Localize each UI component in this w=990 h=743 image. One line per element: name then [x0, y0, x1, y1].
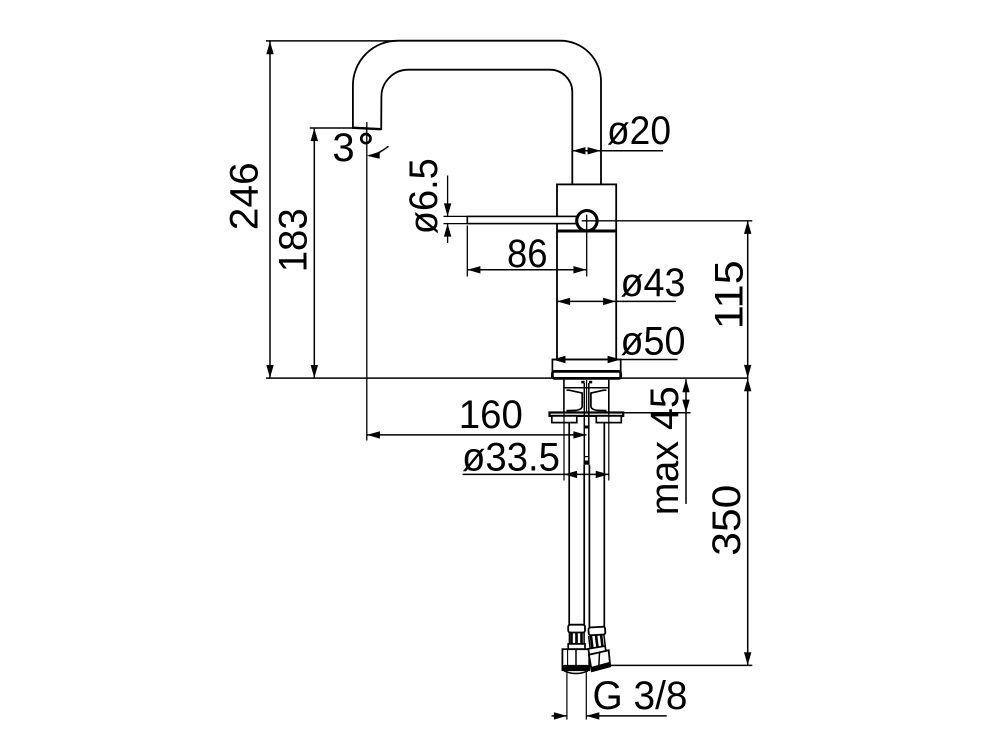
dimension ø50 — [552, 319, 685, 363]
fixing cone right horn — [591, 390, 607, 410]
body joint bold band — [558, 229, 616, 232]
stud centerline — [586, 380, 588, 413]
left hose lower band — [568, 644, 585, 649]
base plate — [552, 371, 620, 378]
svg-text:183: 183 — [271, 208, 315, 272]
right hose — [603, 423, 605, 629]
left hose ribs — [569, 633, 584, 645]
dimension 350 — [610, 378, 753, 665]
angle 3° label — [332, 126, 388, 170]
svg-text:ø20: ø20 — [607, 109, 671, 153]
dimension 183 — [271, 128, 352, 378]
svg-text:86: 86 — [507, 232, 548, 276]
left hose — [568, 423, 570, 626]
svg-text:3: 3 — [332, 126, 354, 170]
ø33.5 extension lines — [563, 413, 565, 481]
svg-text:350: 350 — [705, 485, 749, 556]
threaded mounting tube (ø33.5) — [563, 378, 565, 412]
dimension max 45 — [623, 379, 690, 515]
svg-text:ø33.5: ø33.5 — [462, 436, 560, 480]
clamp right leg — [596, 416, 621, 423]
svg-text:160: 160 — [459, 393, 523, 437]
dimension 246 — [223, 41, 398, 378]
svg-text:G 3/8: G 3/8 — [593, 674, 688, 718]
counter/reference line — [266, 377, 748, 379]
dimension G 3/8 — [552, 674, 688, 720]
dimension 115 — [707, 221, 751, 378]
outlet centerline down to 160 dim — [366, 122, 368, 441]
svg-text:246: 246 — [223, 162, 267, 230]
lever handle (ø6.5) — [467, 216, 579, 223]
lever ball joint — [577, 211, 597, 231]
outlet face (3° slant) — [352, 128, 381, 130]
stud top marks — [581, 381, 584, 384]
right hose fitting (tilted) — [588, 627, 610, 672]
G3/8 extension lines — [566, 671, 568, 720]
skirt (ø50) — [552, 360, 620, 372]
threaded stud — [583, 383, 585, 465]
clamp left leg — [552, 416, 577, 423]
svg-text:115: 115 — [707, 260, 751, 329]
left hose crimp collar — [568, 625, 585, 633]
dimension ø33.5 — [462, 436, 609, 480]
fixing cone left horn — [567, 390, 583, 410]
dimension ø20 — [572, 109, 671, 155]
body (ø43 cartridge) — [557, 184, 616, 359]
left hex nut G3/8 — [562, 649, 589, 670]
svg-text:ø6.5: ø6.5 — [402, 158, 446, 234]
dimension 86 — [467, 226, 586, 277]
clamp plate — [550, 413, 624, 416]
dimension 160 — [367, 393, 587, 439]
dimension ø6.5 — [402, 158, 467, 243]
svg-text:ø43: ø43 — [621, 261, 686, 305]
spout tube (squared U) — [353, 41, 601, 185]
ball cross + leader to 115 dim — [582, 220, 753, 222]
svg-text:max 45: max 45 — [643, 386, 687, 515]
svg-text:ø50: ø50 — [621, 319, 686, 363]
dimension ø43 — [557, 261, 686, 305]
